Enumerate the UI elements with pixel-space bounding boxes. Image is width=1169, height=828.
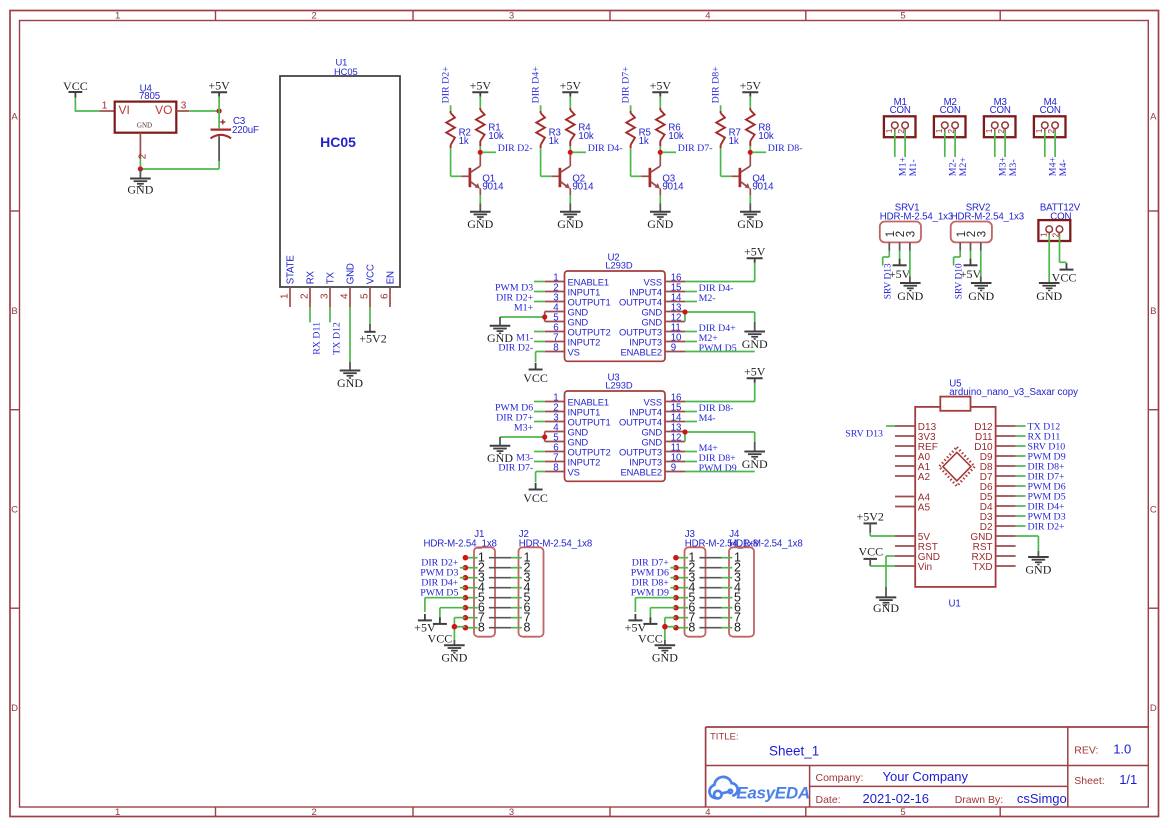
svg-text:5: 5 <box>360 293 371 299</box>
svg-text:Company:: Company: <box>816 772 864 784</box>
svg-text:DIR D4-: DIR D4- <box>588 143 623 154</box>
svg-text:B: B <box>11 306 17 317</box>
svg-text:PWM D9: PWM D9 <box>631 587 669 598</box>
svg-text:GND: GND <box>345 263 356 284</box>
svg-text:1k: 1k <box>549 136 559 147</box>
svg-text:DIR D2+: DIR D2+ <box>1028 522 1066 533</box>
svg-text:9: 9 <box>671 463 676 474</box>
svg-text:TX: TX <box>325 272 336 285</box>
svg-text:GND: GND <box>137 122 152 130</box>
svg-text:A: A <box>11 111 18 122</box>
svg-text:RX: RX <box>305 270 316 284</box>
svg-text:PWM D5: PWM D5 <box>420 587 458 598</box>
svg-text:+5V: +5V <box>740 79 762 93</box>
svg-text:VI: VI <box>119 103 130 117</box>
svg-text:1k: 1k <box>639 136 649 147</box>
svg-text:5: 5 <box>900 11 905 22</box>
svg-text:9014: 9014 <box>572 182 594 193</box>
svg-text:C: C <box>1150 505 1157 516</box>
svg-text:CON: CON <box>990 105 1011 116</box>
svg-text:DIR D8+: DIR D8+ <box>710 66 721 104</box>
svg-text:1: 1 <box>115 11 120 22</box>
svg-text:GND: GND <box>487 331 513 345</box>
svg-text:2: 2 <box>312 807 317 818</box>
svg-text:1: 1 <box>984 128 994 133</box>
svg-text:GND: GND <box>487 451 513 465</box>
svg-text:TITLE:: TITLE: <box>710 732 739 743</box>
svg-text:10k: 10k <box>578 131 593 142</box>
svg-text:M4-: M4- <box>1058 159 1069 176</box>
svg-text:10k: 10k <box>488 131 503 142</box>
svg-text:+5V: +5V <box>560 79 582 93</box>
svg-text:DIR D8-: DIR D8- <box>768 143 803 154</box>
svg-text:8: 8 <box>478 620 485 634</box>
svg-text:RX D11: RX D11 <box>312 322 323 355</box>
svg-text:+5V: +5V <box>889 267 911 281</box>
svg-text:3: 3 <box>976 231 988 237</box>
svg-text:CON: CON <box>1040 105 1061 116</box>
svg-text:GND: GND <box>897 289 923 303</box>
svg-text:GND: GND <box>742 337 768 351</box>
svg-text:5: 5 <box>900 807 905 818</box>
svg-text:GND: GND <box>647 217 673 231</box>
svg-text:M1-: M1- <box>908 159 919 176</box>
svg-text:+5V: +5V <box>650 79 672 93</box>
svg-text:TXD: TXD <box>973 562 993 573</box>
svg-text:3: 3 <box>509 807 514 818</box>
svg-text:ENABLE2: ENABLE2 <box>620 346 662 357</box>
svg-text:GND: GND <box>127 183 153 197</box>
svg-text:4: 4 <box>340 293 351 299</box>
svg-text:A5: A5 <box>918 502 931 513</box>
svg-text:Vin: Vin <box>918 562 932 573</box>
svg-text:9014: 9014 <box>662 182 684 193</box>
svg-text:220uF: 220uF <box>232 125 259 136</box>
svg-text:GND: GND <box>1036 289 1062 303</box>
svg-text:csSimgo: csSimgo <box>1017 791 1067 806</box>
svg-text:3: 3 <box>181 101 187 112</box>
svg-text:L293D: L293D <box>605 259 632 270</box>
svg-text:1: 1 <box>1034 128 1044 133</box>
svg-text:DIR D7-: DIR D7- <box>678 143 713 154</box>
svg-text:SRV D13: SRV D13 <box>845 428 883 439</box>
svg-text:ENABLE2: ENABLE2 <box>620 466 662 477</box>
svg-text:3: 3 <box>906 231 918 237</box>
svg-text:GND: GND <box>737 217 763 231</box>
svg-text:1/1: 1/1 <box>1119 772 1137 787</box>
svg-text:+5V: +5V <box>744 365 766 379</box>
svg-text:EN: EN <box>385 271 396 284</box>
svg-text:M3+: M3+ <box>514 423 534 434</box>
svg-text:3: 3 <box>509 11 514 22</box>
svg-text:8: 8 <box>553 343 558 354</box>
svg-text:GND: GND <box>441 651 467 665</box>
svg-text:Sheet_1: Sheet_1 <box>769 743 819 758</box>
svg-text:Date:: Date: <box>816 794 841 806</box>
svg-text:VCC: VCC <box>365 264 376 284</box>
svg-text:8: 8 <box>688 620 695 634</box>
svg-text:2: 2 <box>137 153 148 159</box>
svg-text:VCC: VCC <box>523 491 548 505</box>
svg-text:1: 1 <box>884 128 894 133</box>
svg-text:VCC: VCC <box>63 79 88 93</box>
svg-text:8: 8 <box>524 620 531 634</box>
svg-text:M2+: M2+ <box>958 157 969 177</box>
svg-text:8: 8 <box>734 620 741 634</box>
svg-text:1: 1 <box>102 101 108 112</box>
svg-text:2: 2 <box>300 293 311 299</box>
svg-text:+5V2: +5V2 <box>359 331 386 345</box>
svg-text:VS: VS <box>568 346 580 357</box>
svg-text:2021-02-16: 2021-02-16 <box>863 791 930 806</box>
svg-text:CON: CON <box>940 105 961 116</box>
svg-text:C: C <box>11 505 18 516</box>
svg-text:1: 1 <box>280 293 291 299</box>
svg-text:D: D <box>1150 703 1157 714</box>
svg-text:GND: GND <box>968 289 994 303</box>
svg-text:L293D: L293D <box>605 379 632 390</box>
svg-text:HC05: HC05 <box>320 134 356 150</box>
svg-text:DIR D7+: DIR D7+ <box>620 66 631 104</box>
svg-text:GND: GND <box>1025 562 1051 576</box>
svg-text:Drawn By:: Drawn By: <box>955 794 1003 806</box>
svg-text:Your Company: Your Company <box>883 769 969 784</box>
svg-text:VCC: VCC <box>1052 271 1077 285</box>
svg-text:A2: A2 <box>918 472 931 483</box>
svg-text:B: B <box>1150 306 1156 317</box>
svg-text:GND: GND <box>652 651 678 665</box>
svg-text:10k: 10k <box>758 131 773 142</box>
svg-text:U1: U1 <box>949 599 961 610</box>
svg-text:8: 8 <box>553 463 558 474</box>
svg-text:1k: 1k <box>459 136 469 147</box>
svg-text:7805: 7805 <box>139 91 160 102</box>
svg-text:TX D12: TX D12 <box>332 322 343 355</box>
svg-text:STATE: STATE <box>285 255 296 285</box>
svg-text:GND: GND <box>467 217 493 231</box>
svg-text:1: 1 <box>934 128 944 133</box>
svg-text:M2-: M2- <box>699 293 716 304</box>
svg-text:DIR D2-: DIR D2- <box>498 143 533 154</box>
svg-text:+5V: +5V <box>208 79 230 93</box>
svg-text:2: 2 <box>312 11 317 22</box>
svg-text:VO: VO <box>155 103 172 117</box>
svg-text:GND: GND <box>873 601 899 615</box>
svg-text:DIR D4+: DIR D4+ <box>530 66 541 104</box>
svg-text:1.0: 1.0 <box>1113 741 1131 756</box>
svg-text:10k: 10k <box>668 131 683 142</box>
svg-text:3: 3 <box>320 293 331 299</box>
svg-text:M4-: M4- <box>699 413 716 424</box>
svg-text:DIR D2+: DIR D2+ <box>440 66 451 104</box>
svg-text:HC05: HC05 <box>334 66 358 77</box>
svg-text:6: 6 <box>380 293 391 299</box>
svg-text:VS: VS <box>568 466 580 477</box>
svg-text:GND: GND <box>337 376 363 390</box>
svg-text:GND: GND <box>742 457 768 471</box>
svg-text:9014: 9014 <box>752 182 774 193</box>
svg-text:1: 1 <box>115 807 120 818</box>
svg-text:VCC: VCC <box>638 632 663 646</box>
svg-text:+5V: +5V <box>960 267 982 281</box>
svg-text:REV:: REV: <box>1074 744 1098 756</box>
svg-text:A: A <box>1150 111 1157 122</box>
svg-text:EasyEDA: EasyEDA <box>736 783 810 802</box>
svg-text:1k: 1k <box>729 136 739 147</box>
svg-text:4: 4 <box>705 11 710 22</box>
svg-text:+5V: +5V <box>744 245 766 259</box>
svg-text:9: 9 <box>671 343 676 354</box>
svg-text:M1+: M1+ <box>514 303 534 314</box>
svg-text:1: 1 <box>1038 232 1048 237</box>
svg-text:VCC: VCC <box>523 371 548 385</box>
svg-text:M3-: M3- <box>1008 159 1019 176</box>
svg-text:Sheet:: Sheet: <box>1074 775 1104 787</box>
svg-text:+5V2: +5V2 <box>856 510 883 524</box>
svg-text:4: 4 <box>705 807 710 818</box>
svg-text:GND: GND <box>557 217 583 231</box>
svg-text:D: D <box>11 703 18 714</box>
svg-text:VCC: VCC <box>428 632 453 646</box>
svg-text:CON: CON <box>890 105 911 116</box>
svg-text:VCC: VCC <box>858 544 883 558</box>
svg-text:9014: 9014 <box>482 182 504 193</box>
svg-text:+5V: +5V <box>470 79 492 93</box>
